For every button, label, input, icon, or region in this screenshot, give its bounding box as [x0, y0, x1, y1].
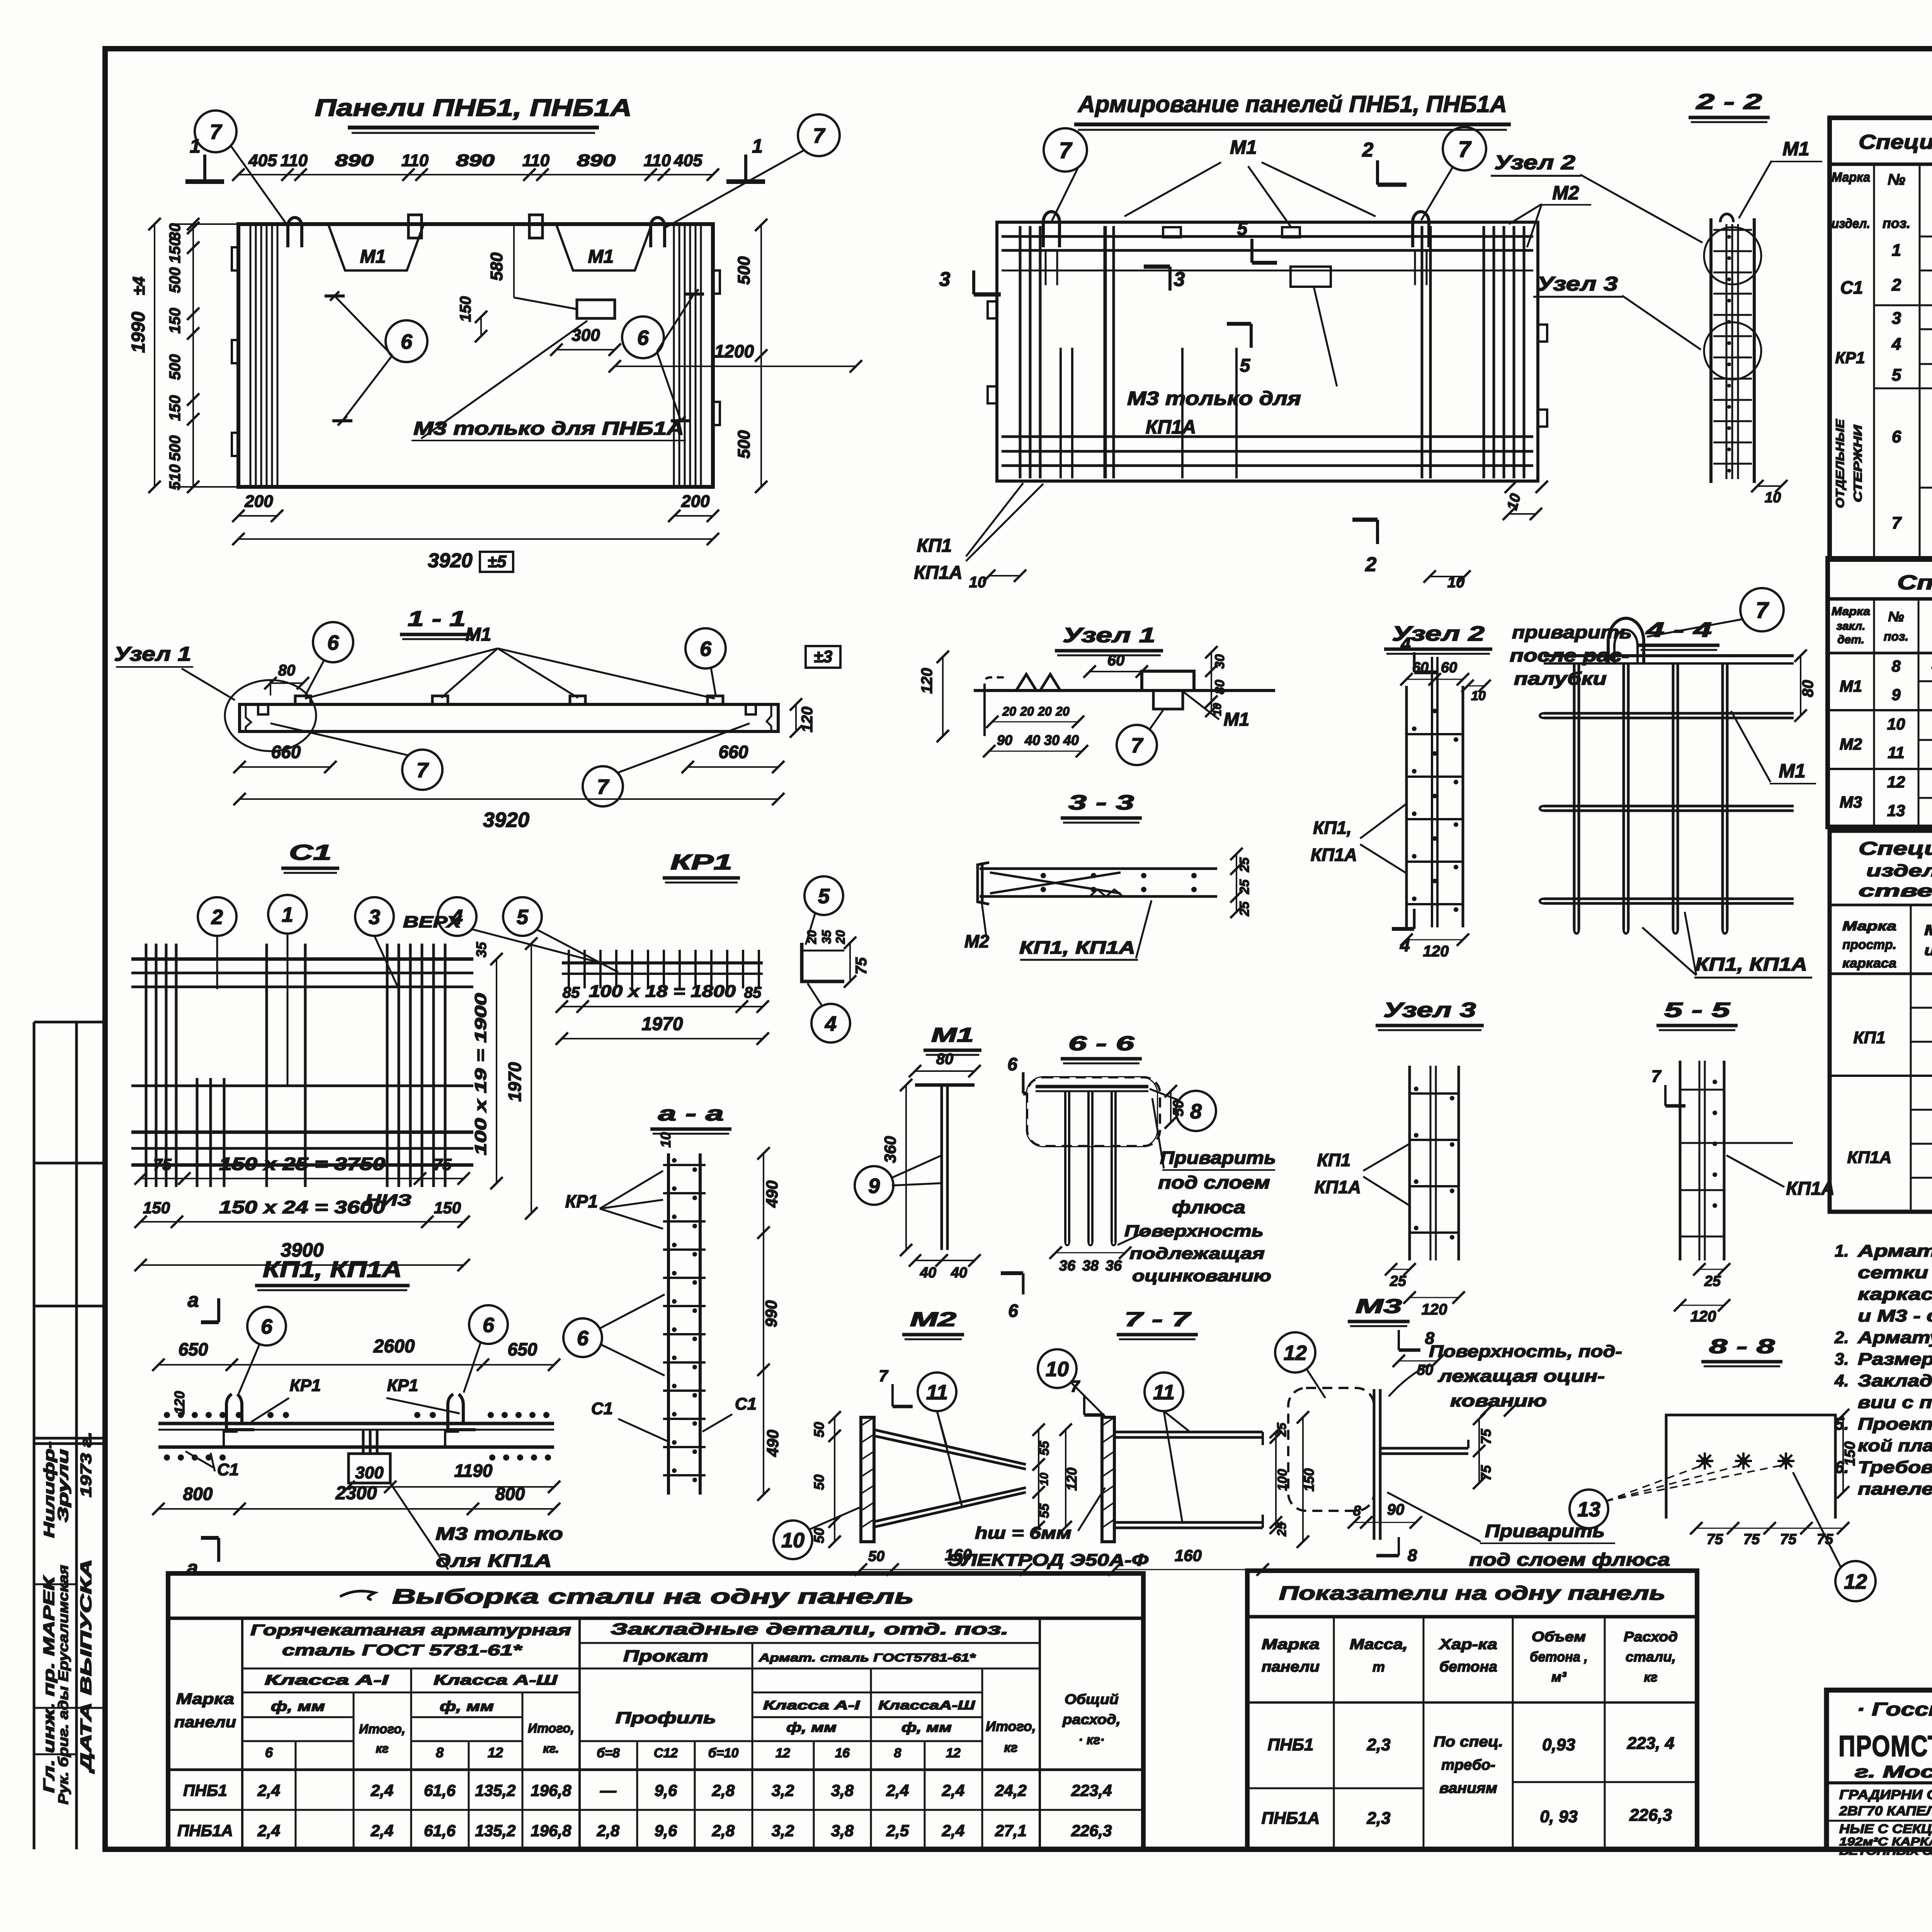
- 3-3 bar: [980, 867, 1217, 870]
- svg-text:г. Москва 1973 г.: г. Москва 1973 г.: [1855, 1762, 1932, 1781]
- svg-text:Показатели на одну панель: Показатели на одну панель: [1279, 1582, 1665, 1604]
- svg-text:2,4: 2,4: [371, 1781, 393, 1799]
- svg-text:223,4: 223,4: [1071, 1781, 1112, 1799]
- C1 right dims: [496, 959, 497, 1183]
- svg-text:30: 30: [1044, 732, 1060, 748]
- svg-text:490: 490: [763, 1180, 781, 1208]
- svg-text:Масса,: Масса,: [1350, 1636, 1408, 1653]
- svg-text:Узел 1: Узел 1: [114, 643, 191, 665]
- svg-text:КП1, КП1А: КП1, КП1А: [1695, 954, 1807, 975]
- svg-text:3,8: 3,8: [831, 1821, 854, 1840]
- svg-text:Общий: Общий: [1065, 1691, 1119, 1707]
- svg-text:800: 800: [183, 1484, 213, 1504]
- svg-text:10: 10: [1471, 689, 1486, 703]
- svg-text:150: 150: [1301, 1468, 1317, 1492]
- svg-text:5 - 5: 5 - 5: [1664, 998, 1731, 1022]
- svg-text:hш = 6мм: hш = 6мм: [975, 1524, 1071, 1543]
- 3-3 dots: [1041, 873, 1046, 878]
- svg-text:100 х 19 = 1900: 100 х 19 = 1900: [471, 993, 490, 1155]
- svg-text:300: 300: [355, 1463, 384, 1482]
- 7-7 prongs: [1114, 1431, 1263, 1434]
- svg-text:990: 990: [762, 1300, 780, 1327]
- svg-text:5: 5: [517, 905, 529, 929]
- svg-text:4: 4: [825, 1012, 837, 1035]
- svg-text:М1: М1: [1779, 760, 1805, 782]
- svg-text:· кг·: · кг·: [1078, 1733, 1104, 1747]
- section mark 1 right: [744, 155, 747, 182]
- svg-text:1200: 1200: [714, 341, 754, 361]
- svg-text:61,6: 61,6: [424, 1781, 456, 1799]
- tolerance box ±3: [806, 646, 840, 668]
- svg-text:простр.: простр.: [1842, 937, 1896, 952]
- svg-text:кой пластмассовых или бето: кой пластмассовых или бетонных фиксаторо…: [1858, 1436, 1932, 1455]
- svg-text:7: 7: [1756, 598, 1769, 623]
- svg-text:М3: М3: [1840, 793, 1862, 811]
- mesh C1 middle verticals: [265, 944, 268, 1187]
- svg-text:16: 16: [835, 1746, 850, 1760]
- svg-text:60: 60: [1412, 660, 1429, 676]
- svg-text:5: 5: [1240, 355, 1251, 376]
- svg-text:650: 650: [508, 1339, 537, 1359]
- dim 300 / 1200: [556, 349, 615, 350]
- svg-text:5: 5: [1892, 366, 1901, 384]
- узел 2 ladder: [1405, 686, 1408, 927]
- reinforcement horizontal bars: [1002, 235, 1533, 238]
- svg-text:75: 75: [153, 1155, 172, 1173]
- КП1 bottom dims: [349, 1486, 554, 1488]
- svg-text:2,8: 2,8: [597, 1821, 620, 1840]
- узел 2 bottom dim: [1406, 939, 1463, 940]
- callouts 6 on 1-1: [313, 622, 353, 662]
- 5-5 strip: [1679, 1061, 1682, 1260]
- svg-text:ф, мм: ф, мм: [271, 1698, 325, 1714]
- svg-text:60: 60: [1107, 652, 1125, 669]
- left stamp column: [33, 1022, 36, 1849]
- svg-text:80: 80: [936, 1051, 954, 1068]
- svg-text:8: 8: [1891, 657, 1901, 675]
- M2 prongs wedge: [874, 1430, 1026, 1464]
- svg-text:поз.: поз.: [1884, 629, 1908, 643]
- svg-text:2,3: 2,3: [1366, 1809, 1390, 1828]
- svg-text:По спец.: По спец.: [1434, 1734, 1503, 1750]
- svg-text:890: 890: [456, 151, 495, 170]
- svg-text:40: 40: [920, 1265, 936, 1281]
- svg-text:2,4: 2,4: [942, 1781, 964, 1799]
- svg-text:м³: м³: [1551, 1669, 1567, 1685]
- svg-text:75: 75: [1780, 1531, 1797, 1548]
- svg-text:М1: М1: [1230, 136, 1257, 158]
- table: спецификация арматурных изделий на один пространственный каркас: [1830, 831, 1932, 1212]
- M3 prong: [1380, 1447, 1468, 1450]
- svg-text:М2: М2: [1840, 735, 1862, 753]
- svg-text:М3 только: М3 только: [435, 1524, 563, 1544]
- svg-text:2,3: 2,3: [1366, 1735, 1390, 1754]
- svg-text:подлежащая: подлежащая: [1129, 1244, 1265, 1262]
- 2-2 bottom dim 10: [1757, 485, 1781, 487]
- M2 plate: [861, 1417, 874, 1542]
- M3 bottom dims: [1354, 1522, 1416, 1523]
- svg-text:2: 2: [1362, 139, 1374, 161]
- svg-text:М1: М1: [931, 1024, 974, 1046]
- svg-text:№: №: [1888, 609, 1904, 624]
- dim 120 right of 1-1: [795, 704, 797, 731]
- svg-text:Профиль: Профиль: [616, 1709, 716, 1727]
- узел 3 ladder: [1408, 1066, 1411, 1260]
- plates on 1-1 bar: [295, 696, 311, 704]
- hooks on top: [1043, 212, 1060, 247]
- svg-text:Класса А-Ш: Класса А-Ш: [434, 1672, 558, 1688]
- svg-text:а - а: а - а: [658, 1102, 724, 1125]
- svg-text:ГРАДИРНИ С ВЕНТИЛЯТОРАМИ: ГРАДИРНИ С ВЕНТИЛЯТОРАМИ: [1839, 1787, 1932, 1802]
- svg-text:150: 150: [143, 1199, 170, 1217]
- C1 bottom dim rows: [141, 1178, 464, 1179]
- svg-text:Класса А-I: Класса А-I: [763, 1698, 861, 1712]
- svg-text:КР1: КР1: [565, 1191, 598, 1211]
- svg-text:90: 90: [1387, 1501, 1405, 1518]
- svg-text:6: 6: [1892, 427, 1901, 446]
- svg-text:3,2: 3,2: [772, 1781, 794, 1799]
- M3 dashed contour: [1288, 1388, 1374, 1511]
- svg-text:20: 20: [1055, 704, 1070, 718]
- 6-6 section marks: [1022, 1072, 1025, 1094]
- svg-text:ПНБ1: ПНБ1: [1267, 1735, 1313, 1754]
- table: спецификация стали на одну закладную деталь: [1828, 558, 1932, 827]
- bottom overall dim 3920 ±5: [238, 538, 713, 540]
- svg-text:2.: 2.: [1834, 1328, 1849, 1347]
- svg-text:Армирование панелей ПНБ1, ПН: Армирование панелей ПНБ1, ПНБ1А: [1077, 91, 1507, 117]
- svg-text:С1: С1: [217, 1460, 239, 1479]
- svg-text:8 - 8: 8 - 8: [1709, 1335, 1775, 1358]
- svg-text:палубки: палубки: [1514, 668, 1607, 689]
- svg-text:500: 500: [735, 256, 753, 285]
- svg-text:КП1: КП1: [1317, 1150, 1351, 1170]
- svg-text:7: 7: [1070, 1377, 1080, 1395]
- svg-text:9: 9: [1891, 685, 1901, 704]
- reinforcement vertical bars: [1019, 226, 1022, 478]
- svg-text:ПНБ1: ПНБ1: [183, 1781, 227, 1799]
- svg-text:под слоем: под слоем: [1158, 1172, 1270, 1192]
- svg-text:60: 60: [1441, 660, 1457, 676]
- svg-text:ваниям: ваниям: [1439, 1780, 1497, 1796]
- svg-text:25: 25: [1237, 857, 1252, 872]
- svg-text:120: 120: [1690, 1308, 1716, 1325]
- svg-text:1: 1: [282, 903, 293, 926]
- panel plan outline: [238, 224, 713, 487]
- svg-text:кг: кг: [1004, 1740, 1017, 1755]
- 2-2 top hook: [1720, 214, 1733, 222]
- svg-text:3: 3: [1892, 309, 1901, 328]
- svg-text:3,2: 3,2: [772, 1821, 794, 1840]
- svg-text:27,1: 27,1: [995, 1821, 1027, 1840]
- svg-text:· Госстрой СССР: · Госстрой СССР: [1857, 1699, 1932, 1720]
- svg-text:36: 36: [1059, 1258, 1076, 1274]
- KP1 rails: [562, 961, 763, 964]
- svg-text:4.: 4.: [1834, 1371, 1849, 1390]
- svg-text:кг: кг: [1644, 1670, 1657, 1685]
- svg-text:вии с п. 3. 10 пояснительной: вии с п. 3. 10 пояснительной записки.: [1858, 1393, 1932, 1412]
- svg-text:50: 50: [811, 1528, 827, 1543]
- svg-text:110: 110: [644, 151, 671, 170]
- svg-text:КП1А: КП1А: [914, 563, 962, 583]
- svg-text:7: 7: [417, 759, 429, 782]
- svg-text:М3: М3: [1355, 1295, 1402, 1318]
- svg-text:36: 36: [1105, 1258, 1122, 1274]
- svg-text:35: 35: [473, 942, 489, 957]
- svg-text:12: 12: [1844, 1570, 1867, 1593]
- svg-text:Марка: Марка: [1832, 605, 1870, 618]
- 7-7 section marks: [1083, 1395, 1085, 1415]
- svg-text:НЫЕ С СЕКЦИЯМИ ПЛОЩАДЬЮ: НЫЕ С СЕКЦИЯМИ ПЛОЩАДЬЮ: [1839, 1822, 1932, 1836]
- svg-text:2,8: 2,8: [712, 1781, 735, 1799]
- svg-text:6: 6: [1008, 1301, 1018, 1321]
- svg-text:Спецификация и выборка стал: Спецификация и выборка стали на одно арм…: [1859, 131, 1932, 153]
- svg-text:10: 10: [781, 1529, 804, 1552]
- M2 T-marks left edge: [988, 301, 997, 318]
- svg-text:25: 25: [1237, 901, 1252, 917]
- svg-text:75: 75: [1478, 1429, 1494, 1444]
- svg-text:80: 80: [278, 662, 296, 679]
- svg-text:М1: М1: [1782, 138, 1809, 160]
- svg-text:КР1: КР1: [670, 850, 732, 874]
- M3 section mark 8 top: [1398, 1330, 1400, 1350]
- svg-text:М3 только для ПНБ1А: М3 только для ПНБ1А: [413, 418, 684, 439]
- svg-text:±4: ±4: [129, 277, 148, 296]
- svg-text:40: 40: [951, 1265, 967, 1281]
- svg-text:ЭЛЕКТРОД Э50А-Ф: ЭЛЕКТРОД Э50А-Ф: [947, 1551, 1149, 1570]
- 7-7 dims: [1275, 1432, 1277, 1528]
- svg-text:75: 75: [1743, 1531, 1760, 1548]
- svg-text:сталь ГОСТ 5781-61*: сталь ГОСТ 5781-61*: [282, 1642, 523, 1659]
- svg-text:±3: ±3: [814, 647, 833, 666]
- svg-text:Класса А-I: Класса А-I: [265, 1672, 389, 1688]
- 7-7 callouts: [1038, 1349, 1077, 1388]
- 8-8 dims: [1696, 1528, 1843, 1529]
- section mark 1 left: [203, 155, 206, 182]
- svg-text:160: 160: [1175, 1546, 1202, 1565]
- svg-text:М1: М1: [588, 247, 614, 267]
- svg-text:Выборка стали на одну: Выборка стали на одну панель: [392, 1585, 914, 1608]
- svg-text:75: 75: [853, 957, 870, 975]
- svg-text:БЕТОННЫХ ЭЛЕМЕНТОВ: БЕТОННЫХ ЭЛЕМЕНТОВ: [1839, 1845, 1932, 1857]
- callout circle 6 left: [386, 320, 427, 362]
- svg-text:Узел 2: Узел 2: [1494, 151, 1575, 174]
- svg-text:КлассаА-Ш: КлассаА-Ш: [878, 1698, 975, 1712]
- a-a right dims 490/990/490: [763, 1153, 764, 1495]
- svg-text:бетона ,: бетона ,: [1530, 1649, 1588, 1665]
- svg-text:10: 10: [1038, 1473, 1051, 1486]
- recess trapezoid right with label M1: [556, 225, 651, 270]
- svg-text:М1: М1: [1840, 677, 1862, 695]
- svg-text:800: 800: [495, 1484, 525, 1504]
- svg-text:120: 120: [799, 707, 816, 733]
- KP1 dims: [562, 1006, 763, 1007]
- svg-text:б=10: б=10: [708, 1746, 739, 1760]
- 2-2 reference circles: [1704, 227, 1761, 284]
- M3 dims right: [1478, 1419, 1480, 1483]
- svg-text:каркаса: каркаса: [1842, 956, 1896, 971]
- svg-text:М2: М2: [910, 1308, 956, 1331]
- svg-text:3920: 3920: [428, 549, 473, 572]
- svg-text:1: 1: [1892, 241, 1901, 260]
- svg-text:требо-: требо-: [1441, 1757, 1495, 1773]
- svg-text:КП1А: КП1А: [1786, 1179, 1834, 1199]
- svg-text:12: 12: [776, 1746, 790, 1760]
- table: показатели на одну панель: [1247, 1571, 1697, 1849]
- svg-text:закл.: закл.: [1837, 620, 1866, 633]
- svg-text:55: 55: [1037, 1440, 1052, 1456]
- svg-text:35: 35: [820, 930, 833, 944]
- svg-text:КП1,: КП1,: [1313, 818, 1352, 838]
- svg-text:КР1: КР1: [387, 1376, 418, 1395]
- svg-text:1973 г.: 1973 г.: [78, 1432, 95, 1497]
- svg-text:2ВГ70 КАПЕЛЬНЫЕ И БРЫЗГАЛЬ-: 2ВГ70 КАПЕЛЬНЫЕ И БРЫЗГАЛЬ-: [1839, 1804, 1932, 1818]
- КП1 angle bracket right: [448, 1394, 481, 1430]
- svg-text:Размеры сеток и каркасов д: Размеры сеток и каркасов даны по осям ст…: [1858, 1350, 1932, 1369]
- svg-text:2600: 2600: [373, 1336, 415, 1357]
- svg-text:40: 40: [1024, 732, 1040, 748]
- узел 2 section marks 4: [1413, 652, 1416, 672]
- svg-text:405: 405: [248, 151, 277, 170]
- svg-text:Панели ПНБ1, ПНБ1А: Панели ПНБ1, ПНБ1А: [315, 95, 632, 121]
- svg-text:50: 50: [1170, 1100, 1187, 1116]
- svg-text:2,8: 2,8: [712, 1821, 735, 1840]
- svg-text:200: 200: [244, 492, 273, 511]
- svg-text:4: 4: [451, 905, 463, 929]
- overall dim 1990±4: [154, 224, 155, 487]
- svg-text:9,6: 9,6: [655, 1821, 677, 1840]
- svg-text:Итого,: Итого,: [528, 1721, 574, 1736]
- panel hatch right band: [673, 225, 675, 486]
- svg-text:для КП1А: для КП1А: [436, 1551, 552, 1571]
- svg-text:12: 12: [1887, 773, 1905, 791]
- svg-text:75: 75: [434, 1155, 452, 1173]
- svg-text:Закладные детали, отд. поз.: Закладные детали, отд. поз.: [611, 1620, 1009, 1638]
- svg-text:—: —: [600, 1781, 617, 1799]
- svg-text:360: 360: [881, 1136, 899, 1163]
- reinforcement plan outline: [997, 222, 1538, 481]
- mesh C1 vertical bars right: [386, 944, 389, 1187]
- svg-text:7: 7: [879, 1367, 888, 1385]
- a-a ladder side labels: [563, 1318, 602, 1357]
- svg-text:12: 12: [946, 1746, 961, 1760]
- M2 callout 10: [774, 1520, 812, 1559]
- svg-text:ф, мм: ф, мм: [901, 1720, 952, 1735]
- svg-text:Марка: Марка: [1842, 919, 1896, 934]
- КП1 angle bracket left: [226, 1394, 260, 1430]
- svg-text:изделий ,на один простран-: изделий ,на один простран-: [1866, 861, 1932, 880]
- table: выборка стали на одну панель: [168, 1573, 1143, 1849]
- top dimension chain 405/110/890: [238, 174, 713, 175]
- svg-text:12: 12: [488, 1745, 503, 1760]
- svg-text:КП1А: КП1А: [1315, 1177, 1361, 1197]
- узел 1 plate line: [974, 689, 1275, 692]
- svg-text:500: 500: [167, 267, 184, 293]
- svg-text:КП1А: КП1А: [1847, 1148, 1892, 1167]
- svg-text:75: 75: [1707, 1531, 1723, 1548]
- KP1 callouts 4 5: [438, 897, 476, 936]
- inner dim 580 and 150: [513, 225, 515, 298]
- svg-text:Итого,: Итого,: [986, 1718, 1036, 1734]
- svg-text:6: 6: [265, 1745, 273, 1760]
- svg-text:120: 120: [1422, 1301, 1447, 1318]
- svg-text:1970: 1970: [642, 1014, 683, 1034]
- svg-text:196,8: 196,8: [531, 1781, 571, 1799]
- recess trapezoid left with label M1: [328, 225, 423, 270]
- svg-text:25: 25: [1389, 1273, 1406, 1289]
- svg-text:11: 11: [1153, 1381, 1175, 1404]
- 4-4 mesh top chord: [1544, 654, 1794, 657]
- svg-text:80: 80: [1213, 680, 1227, 694]
- svg-text:2,4: 2,4: [371, 1821, 393, 1840]
- svg-text:1990: 1990: [128, 311, 149, 353]
- svg-text:3,8: 3,8: [831, 1781, 854, 1799]
- svg-text:650: 650: [179, 1339, 208, 1359]
- callout circle 7 right: [798, 114, 840, 156]
- section marks 3: [972, 270, 975, 294]
- svg-text:510: 510: [167, 464, 184, 490]
- svg-text:поз.: поз.: [1883, 215, 1910, 231]
- узел 1 callout 7: [1117, 725, 1157, 765]
- svg-text:890: 890: [335, 151, 374, 170]
- svg-text:Спецификация арматурных: Спецификация арматурных: [1859, 838, 1932, 859]
- mesh C1 vertical bars left: [145, 944, 148, 1187]
- svg-text:Проектную толщину защитных: Проектную толщину защитных слоев бетона …: [1858, 1415, 1932, 1434]
- svg-text:Узел 3: Узел 3: [1537, 273, 1618, 295]
- svg-text:20: 20: [833, 930, 847, 944]
- svg-text:2: 2: [1365, 553, 1377, 576]
- table: спецификация и выборка стали на одно арматурное изделие: [1830, 118, 1932, 560]
- svg-text:2,4: 2,4: [886, 1781, 909, 1799]
- section marks 2: [1376, 160, 1379, 185]
- svg-text:110: 110: [522, 151, 550, 170]
- svg-text:150 х 25 = 3750: 150 х 25 = 3750: [219, 1154, 386, 1174]
- svg-text:1: 1: [752, 135, 763, 157]
- 6-6 dashed contour: [1027, 1077, 1157, 1146]
- svg-text:223, 4: 223, 4: [1627, 1734, 1674, 1753]
- svg-text:Поверхность: Поверхность: [1124, 1222, 1264, 1240]
- svg-text:0,93: 0,93: [1542, 1735, 1575, 1754]
- svg-text:150: 150: [457, 296, 474, 322]
- svg-text:Поверхность, под-: Поверхность, под-: [1429, 1342, 1622, 1361]
- svg-text:Узел 1: Узел 1: [1063, 624, 1155, 647]
- svg-text:ДАТА ВЫПУСКА: ДАТА ВЫПУСКА: [78, 1559, 95, 1774]
- svg-text:500: 500: [167, 354, 184, 380]
- svg-text:ПНБ1А: ПНБ1А: [177, 1821, 233, 1840]
- svg-text:1.: 1.: [1835, 1242, 1849, 1260]
- 4-4 hook loop: [1608, 618, 1644, 663]
- 5-5 bottom dims: [1699, 1269, 1724, 1270]
- svg-text:С1: С1: [735, 1395, 757, 1413]
- svg-text:2,5: 2,5: [886, 1821, 909, 1840]
- svg-text:панели: панели: [174, 1714, 236, 1731]
- svg-text:Приварить: Приварить: [1485, 1521, 1605, 1541]
- узел 2 dims 60 60: [1406, 679, 1463, 680]
- partial verticals: [1060, 348, 1062, 478]
- svg-text:3920: 3920: [483, 808, 529, 832]
- svg-text:КП1, КП1А: КП1, КП1А: [263, 1257, 402, 1282]
- svg-text:Марка: Марка: [1262, 1636, 1320, 1653]
- 5-5 section marks 7: [1664, 1085, 1667, 1106]
- svg-text:7 - 7: 7 - 7: [1124, 1308, 1191, 1331]
- M3 plate: [1373, 1389, 1376, 1540]
- svg-text:бетона: бетона: [1439, 1659, 1497, 1675]
- svg-text:кг: кг: [376, 1742, 388, 1755]
- svg-text:80: 80: [1799, 680, 1816, 697]
- svg-text:2,4: 2,4: [942, 1821, 964, 1840]
- svg-text:10: 10: [658, 1132, 673, 1148]
- svg-text:75: 75: [1817, 1531, 1833, 1548]
- dims 660/660 under 1-1: [240, 766, 330, 768]
